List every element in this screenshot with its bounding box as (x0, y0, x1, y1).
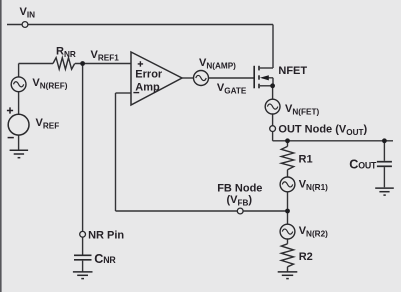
wire VN(FET) to OUT node (272, 114, 274, 126)
terminal FB node (237, 208, 243, 214)
wire COUT bottom lead (383, 167, 385, 187)
ground below CNR (73, 272, 93, 279)
wire left column verticals (18, 64, 20, 150)
wire minus input lead (116, 92, 132, 94)
terminal OUT node (270, 126, 276, 132)
op-amp U1 error amplifier (131, 52, 182, 105)
svg-text:R1: R1 (299, 153, 313, 165)
wire feedback vertical (115, 93, 117, 211)
wire OUT node down (272, 132, 274, 141)
svg-text:NFET: NFET (278, 65, 307, 77)
svg-text:COUT: COUT (349, 157, 377, 171)
wire FB to VN(R2) (287, 211, 289, 224)
wire feedback horizontal (116, 210, 288, 212)
source VN(R1) (280, 177, 295, 192)
source VN(AMP) (194, 71, 209, 86)
wire VIN top rail (7, 24, 273, 26)
wire amp output (182, 77, 193, 79)
resistor R2 (281, 244, 293, 267)
wire COUT top lead (383, 141, 385, 161)
minus sign of VREF (8, 137, 14, 139)
wire FET source to VN(FET) (272, 86, 274, 100)
resistor R1 (281, 146, 293, 169)
node FB junction dot (285, 209, 290, 214)
source VREF (8, 114, 29, 135)
ground below VREF (10, 150, 29, 157)
NFET body arrow (260, 75, 269, 80)
svg-text:Error: Error (135, 68, 163, 80)
svg-text:CNR: CNR (94, 252, 116, 266)
plus marker inside amp (138, 61, 143, 66)
wire R1 top lead (287, 141, 289, 147)
wire R1 to VN(R1) (287, 170, 289, 177)
minus marker inside amp (133, 92, 139, 94)
wire VN(R2) to R2 (287, 239, 289, 244)
capacitor CNR (74, 255, 92, 259)
svg-text:FB Node: FB Node (217, 183, 262, 195)
wire R2 to ground (287, 267, 289, 272)
svg-text:NR Pin: NR Pin (88, 230, 124, 242)
transistor NFET (254, 66, 259, 89)
left border edge (0, 0, 2, 292)
terminal VIN (22, 22, 28, 28)
svg-text:R2: R2 (299, 251, 313, 263)
svg-text:Amp: Amp (135, 81, 160, 93)
terminal NR pin (80, 231, 86, 237)
node COUT junction dot (382, 138, 387, 143)
wire VN(R1) to FB node (287, 192, 289, 211)
wire VGATE (209, 77, 255, 79)
source VN(R2) (280, 224, 295, 239)
node R1 top junction dot (285, 138, 290, 143)
wire drain vertical (272, 25, 274, 69)
wire plus input from VREF1 (19, 63, 131, 65)
wire NR vertical (82, 64, 84, 232)
ground below R2 (278, 272, 298, 279)
plus sign of VREF (7, 107, 13, 113)
node FET source junction dot (270, 83, 275, 88)
capacitor COUT (377, 162, 392, 167)
node VREF1 junction dot (80, 61, 85, 66)
source VN(FET) (265, 99, 280, 114)
wire NR circle to CNR and CNR to ground (82, 237, 84, 271)
ground below COUT (375, 188, 394, 195)
wire OUT horizontal rail (273, 140, 393, 142)
source VN(REF) (11, 77, 26, 92)
resistor RNR (53, 58, 75, 69)
